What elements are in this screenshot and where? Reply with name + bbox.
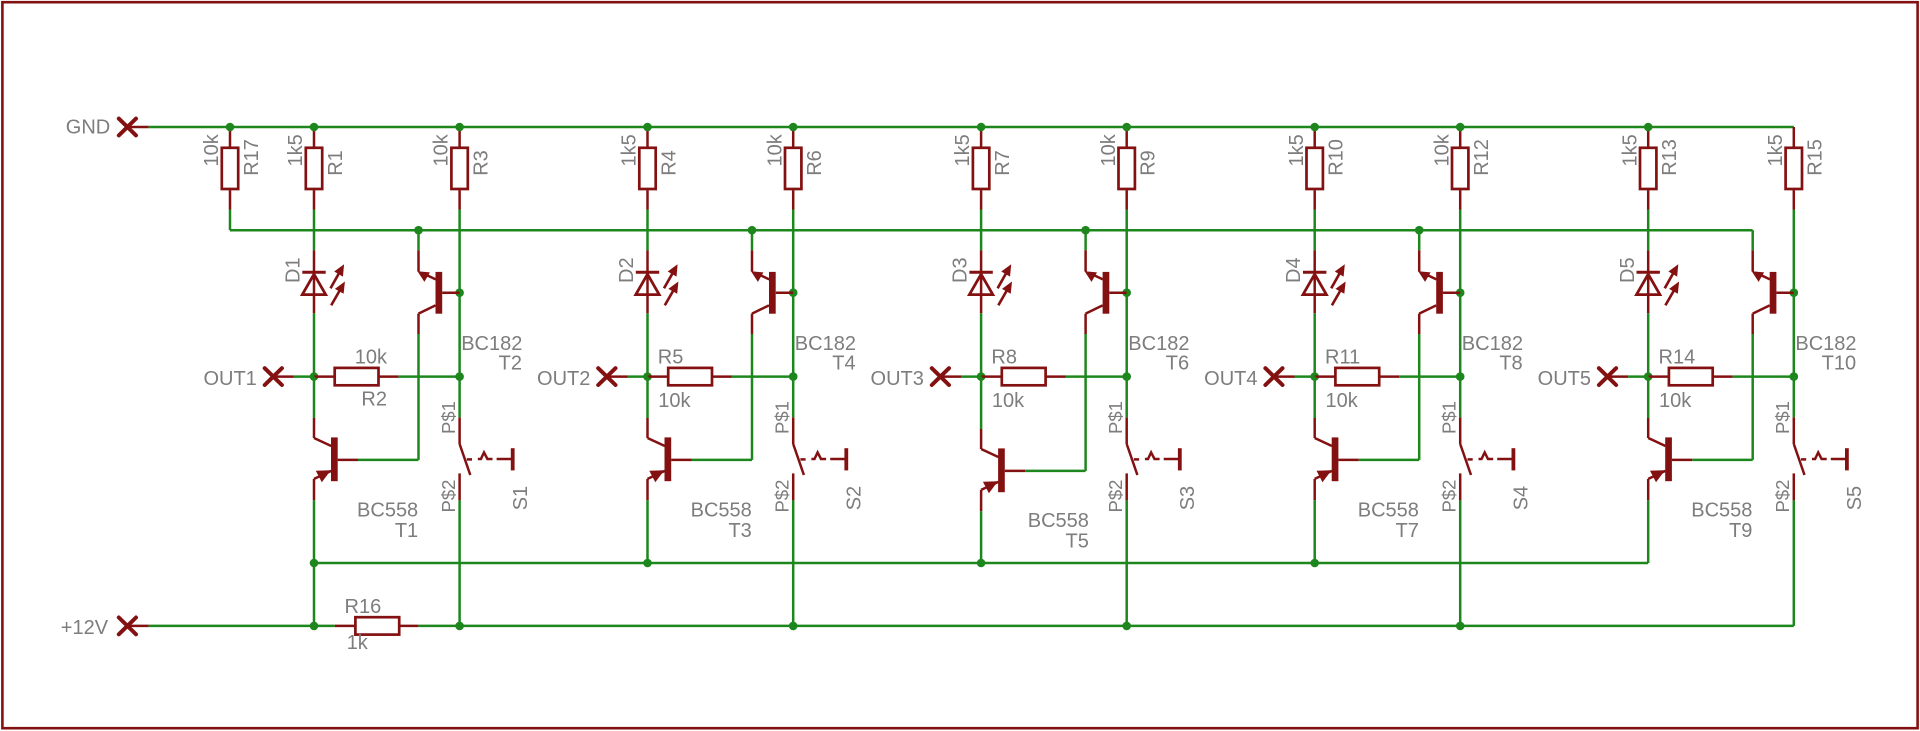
wire bias rail xyxy=(230,229,1753,232)
switch S4 xyxy=(1460,417,1515,500)
svg-text:1k5: 1k5 xyxy=(952,134,974,166)
svg-text:10k: 10k xyxy=(1431,133,1453,166)
junction T8 base / R12 xyxy=(1456,288,1465,297)
junction GND rail / R9 xyxy=(1122,123,1131,132)
svg-text:10k: 10k xyxy=(764,133,786,166)
svg-text:GND: GND xyxy=(66,116,110,138)
svg-text:S1: S1 xyxy=(510,486,532,510)
wire R2 to S1 xyxy=(398,375,459,378)
svg-text:OUT4: OUT4 xyxy=(1204,368,1257,390)
svg-text:BC558: BC558 xyxy=(1691,499,1752,521)
wire T9 emitter to rail xyxy=(1647,500,1650,563)
wire emitter rail xyxy=(314,562,1648,565)
junction GND rail / R10 xyxy=(1310,123,1319,132)
resistor R1 xyxy=(306,127,322,210)
junction +12V rail / S2 xyxy=(789,622,798,631)
wire T4 collector to T3 base xyxy=(751,334,754,460)
svg-text:P$1: P$1 xyxy=(1439,401,1460,434)
svg-text:BC182: BC182 xyxy=(1462,333,1523,355)
wire bias rail to T2 emitter xyxy=(417,230,420,250)
svg-text:BC182: BC182 xyxy=(1795,333,1856,355)
wire T2 collector to T1 base xyxy=(417,334,420,460)
svg-text:1k5: 1k5 xyxy=(1619,134,1641,166)
svg-text:P$2: P$2 xyxy=(772,480,793,513)
svg-text:10k: 10k xyxy=(431,133,453,166)
junction emitter rail / T3 xyxy=(643,559,652,568)
svg-text:S4: S4 xyxy=(1511,486,1533,510)
wire OUT3 to node xyxy=(961,375,981,378)
wire S4 P$2 to +12V rail xyxy=(1459,500,1462,626)
transistor T2 (BC182 NPN) xyxy=(418,250,460,334)
wire R3 / T2 base / S1 P$1 xyxy=(458,210,461,418)
junction +12V rail / emitter rail drop xyxy=(310,622,319,631)
wire bias rail to T8 emitter xyxy=(1418,230,1421,250)
svg-text:R16: R16 xyxy=(345,596,382,618)
svg-text:D3: D3 xyxy=(950,257,972,283)
svg-text:S2: S2 xyxy=(844,486,866,510)
svg-text:T4: T4 xyxy=(832,353,855,375)
wire T10 collector to T9 base xyxy=(1751,334,1754,460)
LED D2 xyxy=(636,250,678,313)
wire R8 to S3 xyxy=(1066,375,1127,378)
svg-text:R10: R10 xyxy=(1326,139,1348,176)
svg-text:P$2: P$2 xyxy=(1439,480,1460,513)
wire R9 / T6 base / S3 P$1 xyxy=(1125,210,1128,418)
wire T3 emitter to rail xyxy=(646,500,649,563)
wire D5 to OUT5 node xyxy=(1647,313,1650,376)
svg-text:P$1: P$1 xyxy=(438,401,459,434)
wire D1 to OUT1 node xyxy=(313,313,316,376)
svg-text:10k: 10k xyxy=(355,347,388,369)
transistor T5 (BC558 PNP) xyxy=(981,429,1025,511)
svg-text:R5: R5 xyxy=(658,347,684,369)
svg-text:R6: R6 xyxy=(804,150,826,176)
svg-text:P$1: P$1 xyxy=(1105,401,1126,434)
svg-text:R12: R12 xyxy=(1471,139,1493,176)
junction emitter rail / T5 xyxy=(977,559,986,568)
switch S5 xyxy=(1794,417,1849,500)
svg-text:OUT5: OUT5 xyxy=(1538,368,1591,390)
svg-text:P$2: P$2 xyxy=(438,480,459,513)
junction emitter rail / T7 xyxy=(1310,559,1319,568)
svg-text:D1: D1 xyxy=(283,257,305,283)
wire OUT2 node to T3 collector xyxy=(646,377,649,418)
wire D2 to OUT2 node xyxy=(646,313,649,376)
transistor T3 (BC558 PNP) xyxy=(648,418,692,500)
switch S2 xyxy=(793,417,848,500)
svg-text:S3: S3 xyxy=(1177,486,1199,510)
resistor R8 xyxy=(981,368,1065,385)
svg-text:P$2: P$2 xyxy=(1772,480,1793,513)
wire to T9 base xyxy=(1692,459,1753,462)
junction OUT5 node xyxy=(1644,372,1653,381)
junction S3 P$1 node xyxy=(1122,372,1131,381)
junction bias rail / T2 emitter xyxy=(414,226,423,235)
junction GND rail / R3 xyxy=(455,123,464,132)
svg-text:+12V: +12V xyxy=(61,617,109,639)
junction OUT1 node xyxy=(310,372,319,381)
junction OUT2 node xyxy=(643,372,652,381)
svg-text:10k: 10k xyxy=(992,390,1025,412)
svg-text:R15: R15 xyxy=(1805,139,1827,176)
junction S2 P$1 node xyxy=(789,372,798,381)
wire bias rail to T4 emitter xyxy=(751,230,754,250)
svg-text:P$1: P$1 xyxy=(1772,401,1793,434)
resistor R4 xyxy=(639,127,655,210)
svg-text:T10: T10 xyxy=(1822,353,1856,375)
transistor T6 (BC182 NPN) xyxy=(1085,250,1127,334)
svg-text:T3: T3 xyxy=(728,520,751,542)
transistor T9 (BC558 PNP) xyxy=(1648,418,1692,500)
svg-text:10k: 10k xyxy=(201,133,223,166)
wire GND rail xyxy=(149,126,1794,129)
svg-text:R14: R14 xyxy=(1659,347,1696,369)
junction GND rail / R17 xyxy=(226,123,235,132)
resistor R5 xyxy=(648,368,732,385)
junction T6 base / R9 xyxy=(1122,288,1131,297)
wire bias rail to T10 emitter xyxy=(1751,230,1754,250)
net flag OUT3 xyxy=(871,368,961,390)
net flag OUT5 xyxy=(1538,368,1628,390)
junction GND rail / R12 xyxy=(1456,123,1465,132)
svg-text:T5: T5 xyxy=(1066,530,1089,552)
LED D3 xyxy=(969,250,1011,313)
LED D5 xyxy=(1637,250,1679,313)
wire OUT4 node to T7 collector xyxy=(1313,377,1316,418)
svg-text:1k5: 1k5 xyxy=(285,134,307,166)
svg-text:T6: T6 xyxy=(1166,353,1189,375)
wire +12V rail (left of R16) xyxy=(149,625,335,628)
junction S1 P$1 node xyxy=(455,372,464,381)
transistor T4 (BC182 NPN) xyxy=(751,250,793,334)
junction +12V rail / S4 xyxy=(1456,622,1465,631)
wire to T5 base xyxy=(1025,470,1086,473)
wire T1 emitter to rail xyxy=(313,500,316,563)
switch S1 xyxy=(460,417,515,500)
junction +12V rail / S3 xyxy=(1122,622,1131,631)
transistor T10 (BC182 NPN) xyxy=(1752,250,1794,334)
svg-text:BC558: BC558 xyxy=(691,499,752,521)
wire S1 P$2 to +12V rail xyxy=(458,500,461,626)
wire S2 P$2 to +12V rail xyxy=(792,500,795,626)
wire R10 to D4 xyxy=(1313,210,1316,251)
junction emitter rail / T1 xyxy=(310,559,319,568)
LED D4 xyxy=(1303,250,1345,313)
transistor T1 (BC558 PNP) xyxy=(314,418,358,500)
junction bias rail / T8 emitter xyxy=(1415,226,1424,235)
wire to T7 base xyxy=(1359,459,1420,462)
svg-text:D5: D5 xyxy=(1617,257,1639,283)
svg-text:R2: R2 xyxy=(361,388,387,410)
net flag +12V xyxy=(61,617,149,639)
wire OUT2 to node xyxy=(628,375,648,378)
switch S3 xyxy=(1127,417,1182,500)
resistor R7 xyxy=(973,127,989,210)
junction S4 P$1 node xyxy=(1456,372,1465,381)
junction OUT4 node xyxy=(1310,372,1319,381)
svg-text:OUT3: OUT3 xyxy=(871,368,924,390)
svg-text:T2: T2 xyxy=(499,353,522,375)
LED D1 xyxy=(302,250,344,313)
svg-text:10k: 10k xyxy=(1098,133,1120,166)
net flag OUT1 xyxy=(203,368,293,390)
svg-text:R17: R17 xyxy=(241,139,263,176)
resistor R15 xyxy=(1786,127,1802,210)
svg-text:1k5: 1k5 xyxy=(1765,134,1787,166)
resistor R11 xyxy=(1315,368,1399,385)
junction T4 base / R6 xyxy=(789,288,798,297)
svg-text:D4: D4 xyxy=(1283,257,1305,283)
net flag OUT2 xyxy=(537,368,627,390)
junction T10 base / R15 xyxy=(1790,288,1799,297)
transistor T8 (BC182 NPN) xyxy=(1418,250,1460,334)
svg-text:P$1: P$1 xyxy=(772,401,793,434)
junction +12V rail / S1 xyxy=(455,622,464,631)
svg-text:T8: T8 xyxy=(1499,353,1522,375)
svg-text:T7: T7 xyxy=(1396,520,1419,542)
wire R14 to S5 xyxy=(1733,375,1794,378)
wire OUT5 node to T9 collector xyxy=(1647,377,1650,418)
svg-text:10k: 10k xyxy=(1659,390,1692,412)
wire OUT3 node to T5 collector xyxy=(980,377,983,429)
svg-text:OUT1: OUT1 xyxy=(203,368,256,390)
svg-text:T1: T1 xyxy=(395,520,418,542)
svg-text:OUT2: OUT2 xyxy=(537,368,590,390)
junction GND rail / R7 xyxy=(977,123,986,132)
net flag GND xyxy=(66,116,149,138)
resistor R12 xyxy=(1452,127,1468,210)
wire R1 to D1 xyxy=(313,210,316,251)
svg-text:R7: R7 xyxy=(992,150,1014,176)
wire R17 to bias rail xyxy=(229,210,232,231)
wire S3 P$2 to +12V rail xyxy=(1125,500,1128,626)
resistor R17 xyxy=(222,127,238,210)
wire D4 to OUT4 node xyxy=(1313,313,1316,376)
svg-text:10k: 10k xyxy=(1326,390,1359,412)
svg-text:R4: R4 xyxy=(658,150,680,176)
svg-text:BC182: BC182 xyxy=(461,333,522,355)
svg-text:1k5: 1k5 xyxy=(619,134,641,166)
wire S5 P$2 to +12V rail xyxy=(1793,500,1796,626)
wire R4 to D2 xyxy=(646,210,649,251)
svg-text:R9: R9 xyxy=(1138,150,1160,176)
wire OUT1 to node xyxy=(294,375,314,378)
junction bias rail / T6 emitter xyxy=(1081,226,1090,235)
svg-text:S5: S5 xyxy=(1844,486,1866,510)
junction bias rail / T4 emitter xyxy=(748,226,757,235)
svg-text:P$2: P$2 xyxy=(1105,480,1126,513)
wire R5 to S2 xyxy=(732,375,793,378)
resistor R3 xyxy=(451,127,467,210)
svg-text:BC182: BC182 xyxy=(795,333,856,355)
wire +12V rail (right of R16) xyxy=(418,625,1793,628)
wire T8 collector to T7 base xyxy=(1418,334,1421,460)
junction GND rail / R4 xyxy=(643,123,652,132)
junction GND rail / R13 xyxy=(1644,123,1653,132)
resistor R14 xyxy=(1648,368,1732,385)
wire emitter rail to +12V xyxy=(313,563,316,626)
wire R11 to S4 xyxy=(1399,375,1460,378)
resistor R2 xyxy=(314,368,398,385)
svg-text:1k: 1k xyxy=(347,632,369,654)
wire R12 / T8 base / S4 P$1 xyxy=(1459,210,1462,418)
wire bias rail to T6 emitter xyxy=(1084,230,1087,250)
resistor R10 xyxy=(1307,127,1323,210)
wire to T1 base xyxy=(358,459,419,462)
wire D3 to OUT3 node xyxy=(980,313,983,376)
svg-text:1k5: 1k5 xyxy=(1286,134,1308,166)
svg-text:BC182: BC182 xyxy=(1128,333,1189,355)
svg-text:R1: R1 xyxy=(325,150,347,176)
wire T6 collector to T5 base xyxy=(1084,334,1087,471)
junction GND rail / R1 xyxy=(310,123,319,132)
transistor T7 (BC558 PNP) xyxy=(1315,418,1359,500)
resistor R13 xyxy=(1640,127,1656,210)
svg-text:BC558: BC558 xyxy=(1358,499,1419,521)
wire R15 / T10 base / S5 P$1 xyxy=(1793,210,1796,418)
junction T2 base / R3 xyxy=(455,288,464,297)
svg-text:R8: R8 xyxy=(991,347,1017,369)
svg-text:R3: R3 xyxy=(471,150,493,176)
svg-text:R13: R13 xyxy=(1659,139,1681,176)
svg-text:R11: R11 xyxy=(1325,347,1360,369)
wire OUT4 to node xyxy=(1295,375,1315,378)
junction GND rail / R6 xyxy=(789,123,798,132)
wire R13 to D5 xyxy=(1647,210,1650,251)
junction S5 P$1 node xyxy=(1790,372,1799,381)
net flag OUT4 xyxy=(1204,368,1294,390)
resistor R9 xyxy=(1119,127,1135,210)
resistor R16 xyxy=(335,617,419,634)
svg-text:D2: D2 xyxy=(616,257,638,283)
wire T7 emitter to rail xyxy=(1313,500,1316,563)
wire R7 to D3 xyxy=(980,210,983,251)
svg-text:10k: 10k xyxy=(658,390,691,412)
wire T5 emitter to rail xyxy=(980,511,983,563)
resistor R6 xyxy=(785,127,801,210)
wire OUT5 to node xyxy=(1628,375,1648,378)
svg-text:T9: T9 xyxy=(1729,520,1752,542)
wire R6 / T4 base / S2 P$1 xyxy=(792,210,795,418)
wire OUT1 node to T1 collector xyxy=(313,377,316,418)
svg-text:BC558: BC558 xyxy=(1028,510,1089,532)
wire to T3 base xyxy=(692,459,753,462)
junction OUT3 node xyxy=(977,372,986,381)
svg-text:BC558: BC558 xyxy=(357,499,418,521)
